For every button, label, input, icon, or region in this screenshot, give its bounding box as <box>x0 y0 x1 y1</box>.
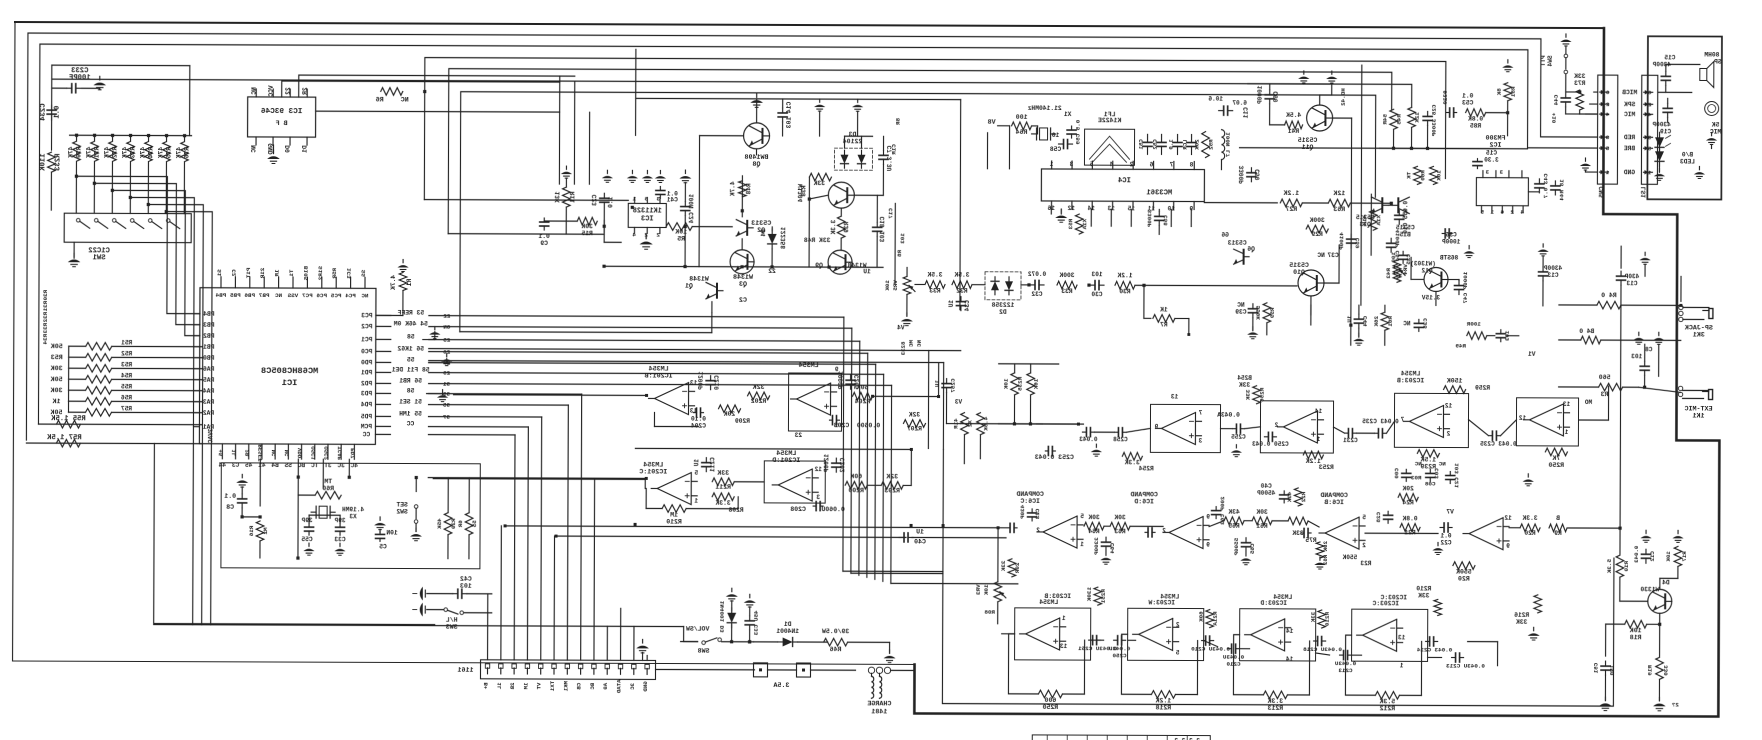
svg-text:C17: C17 <box>887 208 894 219</box>
svg-text:1161: 1161 <box>457 667 473 675</box>
svg-text:C8: C8 <box>1645 346 1653 353</box>
svg-text:PC4: PC4 <box>345 292 356 299</box>
svg-text:2: 2 <box>1605 101 1609 108</box>
svg-text:6: 6 <box>1500 209 1504 216</box>
svg-text:9: 9 <box>1506 543 1510 550</box>
svg-text:1N0: 1N0 <box>1609 665 1616 676</box>
svg-text:R9: R9 <box>1554 530 1562 537</box>
svg-text:PA5: PA5 <box>203 377 215 384</box>
svg-text:R72: R72 <box>111 147 118 159</box>
svg-text:C250: C250 <box>1112 652 1127 659</box>
svg-text:R63: R63 <box>1333 206 1345 213</box>
svg-text:C2: C2 <box>739 297 747 305</box>
svg-text:550K: 550K <box>1255 306 1262 321</box>
svg-text:1000P C47: 1000P C47 <box>1462 272 1469 304</box>
svg-text:21.140MHz: 21.140MHz <box>1027 105 1061 112</box>
svg-text:C03: C03 <box>1433 468 1440 479</box>
svg-text:12: 12 <box>1445 402 1453 409</box>
svg-text:R203: R203 <box>884 487 900 494</box>
svg-text:3.30: 3.30 <box>1484 157 1499 164</box>
svg-text:MK1: MK1 <box>562 681 569 692</box>
svg-text:3C: 3C <box>629 683 636 690</box>
svg-text:T1: T1 <box>288 270 295 278</box>
svg-text:SS: SS <box>360 270 367 278</box>
svg-text:33K: 33K <box>1310 612 1317 623</box>
svg-text:R216: R216 <box>1514 612 1529 619</box>
svg-text:PC5: PC5 <box>330 292 341 299</box>
svg-text:2: 2 <box>1446 430 1450 437</box>
svg-text:C50: C50 <box>1254 169 1261 180</box>
svg-text:C211: C211 <box>709 457 716 472</box>
svg-text:IC6:B: IC6:B <box>1324 499 1344 506</box>
svg-text:21R: 21R <box>259 268 266 279</box>
svg-text:20R: 20R <box>1014 563 1021 574</box>
svg-text:R73: R73 <box>1574 80 1586 87</box>
svg-text:9: 9 <box>1206 542 1210 549</box>
svg-text:1481: 1481 <box>871 708 887 716</box>
svg-text:9: 9 <box>1154 423 1158 430</box>
svg-text:1000P: 1000P <box>1442 238 1461 245</box>
svg-text:5: 5 <box>644 195 648 202</box>
svg-text:5.3K: 5.3K <box>1606 559 1613 574</box>
svg-text:103: 103 <box>899 233 906 244</box>
svg-text:16K: 16K <box>1033 379 1040 390</box>
svg-text:5: 5 <box>1089 161 1093 168</box>
svg-text:6.07: 6.07 <box>1232 100 1247 107</box>
svg-text:13: 13 <box>690 408 698 415</box>
svg-text:2: 2 <box>1274 422 1278 429</box>
svg-text:100: 100 <box>1016 114 1028 121</box>
svg-text:R3: R3 <box>1601 391 1609 398</box>
svg-text:C14 103: C14 103 <box>786 102 793 129</box>
svg-text:G6: G6 <box>1221 232 1229 239</box>
svg-text:12K: 12K <box>1333 190 1345 197</box>
svg-text:13: 13 <box>1398 634 1406 641</box>
svg-text:C258: C258 <box>1113 436 1128 443</box>
svg-text:10K: 10K <box>1003 378 1010 389</box>
svg-text:6: 6 <box>1606 89 1610 96</box>
svg-text:1.0: 1.0 <box>1168 139 1175 150</box>
svg-text:7: 7 <box>1400 416 1404 423</box>
svg-text:R254: R254 <box>1139 465 1154 472</box>
svg-text:7K: 7K <box>1552 455 1560 462</box>
svg-text:103: 103 <box>1631 353 1642 360</box>
svg-text:45K: 45K <box>436 518 443 529</box>
svg-text:33K: 33K <box>1418 592 1430 599</box>
svg-text:550K: 550K <box>1456 569 1472 576</box>
svg-text:0.10: 0.10 <box>691 416 706 423</box>
svg-text:3: 3 <box>656 195 660 202</box>
svg-text:4.5K: 4.5K <box>1286 112 1301 119</box>
svg-text:R59: R59 <box>1269 308 1276 319</box>
svg-text:V4: V4 <box>897 324 905 331</box>
svg-text:BRE: BRE <box>1624 145 1636 152</box>
svg-text:47K: 47K <box>139 147 146 159</box>
svg-text:1: 1 <box>1080 541 1084 548</box>
svg-text:30K: 30K <box>1114 514 1126 521</box>
svg-text:C28: C28 <box>1375 512 1382 523</box>
svg-text:R10: R10 <box>1623 561 1630 572</box>
svg-text:R256: R256 <box>1259 388 1266 403</box>
svg-text:10K: 10K <box>1630 627 1642 634</box>
svg-text:PC0: PC0 <box>361 348 373 355</box>
svg-text:2B: 2B <box>509 682 516 689</box>
svg-text:PB1: PB1 <box>203 344 215 351</box>
svg-text:25: 25 <box>443 337 451 344</box>
svg-text:3.5K: 3.5K <box>927 272 942 279</box>
svg-text:R33: R33 <box>929 288 941 295</box>
svg-text:33K: 33K <box>813 180 825 187</box>
svg-text:22: 22 <box>285 87 292 95</box>
svg-text:0.5 C59: 0.5 C59 <box>1075 120 1082 145</box>
svg-text:1L: 1L <box>231 449 238 456</box>
svg-text:(W1303): (W1303) <box>1410 260 1436 267</box>
svg-text:C36: C36 <box>1445 231 1456 238</box>
svg-text:14: 14 <box>1286 628 1294 635</box>
svg-text:33K: 33K <box>1516 619 1528 626</box>
svg-text:NC: NC <box>401 96 409 104</box>
svg-text:R53: R53 <box>121 361 132 368</box>
svg-text:R60: R60 <box>1419 170 1426 181</box>
svg-text:C39: C39 <box>1235 309 1247 316</box>
svg-text:C208: C208 <box>790 506 806 513</box>
svg-text:33K: 33K <box>1000 560 1007 571</box>
svg-text:2B: 2B <box>244 449 251 456</box>
svg-text:R43: R43 <box>1385 268 1392 279</box>
svg-text:5: 5 <box>1647 145 1651 152</box>
svg-text:6R: 6R <box>457 520 464 528</box>
svg-text:5K: 5K <box>1712 122 1720 129</box>
svg-text:R15: R15 <box>581 230 593 237</box>
svg-text:C2: C2 <box>230 269 237 277</box>
svg-text:430P: 430P <box>1019 505 1026 520</box>
svg-text:C37: C37 <box>1327 252 1339 259</box>
svg-text:CC: CC <box>406 421 414 428</box>
svg-text:33K: 33K <box>1574 73 1586 80</box>
svg-text:9320: 9320 <box>1442 90 1449 105</box>
svg-text:100: 100 <box>1390 252 1397 263</box>
svg-text:VCC: VCC <box>268 85 275 96</box>
svg-text:TK: TK <box>1405 172 1412 180</box>
svg-text:C30: C30 <box>1091 291 1102 298</box>
svg-text:R210: R210 <box>666 519 682 526</box>
svg-text:58 F11 DE1: 58 F11 DE1 <box>392 366 430 373</box>
svg-text:SW4: SW4 <box>1547 55 1554 66</box>
svg-text:12: 12 <box>1067 205 1075 212</box>
svg-text:R63: R63 <box>1114 528 1126 535</box>
svg-text:IC6:D: IC6:D <box>1134 498 1154 505</box>
svg-text:30K: 30K <box>50 365 63 373</box>
svg-text:33K: 33K <box>717 470 729 477</box>
svg-text:B15: B15 <box>1399 231 1411 238</box>
svg-text:B10S: B10S <box>302 266 309 281</box>
svg-text:0.1: 0.1 <box>1462 93 1474 100</box>
svg-text:1R: 1R <box>274 269 281 277</box>
svg-text:NC: NC <box>916 340 923 348</box>
svg-text:56 1K62: 56 1K62 <box>397 345 424 352</box>
svg-text:R20: R20 <box>1524 530 1536 537</box>
svg-text:39/0.5W: 39/0.5W <box>822 628 849 635</box>
svg-text:Q8: Q8 <box>752 161 760 169</box>
svg-text:C210: C210 <box>1226 661 1241 668</box>
svg-text:VOL/SW: VOL/SW <box>686 626 710 633</box>
svg-text:R31: R31 <box>42 301 49 312</box>
svg-text:C213: C213 <box>1338 667 1353 674</box>
svg-text:2: 2 <box>1129 161 1133 168</box>
svg-text:4500P: 4500P <box>1257 490 1276 497</box>
svg-text:R61: R61 <box>1256 523 1268 530</box>
svg-text:R207: R207 <box>907 425 922 432</box>
svg-text:C233: C233 <box>71 67 88 75</box>
svg-text:100N C24: 100N C24 <box>688 194 695 224</box>
svg-text:MO: MO <box>1585 399 1593 406</box>
svg-text:13: 13 <box>690 380 698 387</box>
svg-text:C65: C65 <box>1249 543 1256 554</box>
svg-text:D1: D1 <box>784 621 792 628</box>
svg-text:IC1: IC1 <box>282 378 298 388</box>
svg-text:PC3: PC3 <box>361 312 373 319</box>
svg-text:K1422E: K1422E <box>1098 117 1122 124</box>
svg-text:R32: R32 <box>956 288 968 295</box>
svg-text:R57: R57 <box>121 405 132 412</box>
svg-text:R61: R61 <box>1387 316 1394 327</box>
svg-text:LM354: LM354 <box>1401 370 1421 377</box>
svg-text:W1348: W1348 <box>689 276 709 283</box>
svg-text:IC3 93C46: IC3 93C46 <box>261 108 303 116</box>
svg-text:R212: R212 <box>1379 705 1395 712</box>
svg-text:C257: C257 <box>950 379 957 394</box>
svg-text:C234: C234 <box>40 103 48 121</box>
svg-text:60K: 60K <box>850 473 862 480</box>
svg-text:C55: C55 <box>301 536 313 543</box>
svg-text:300K: 300K <box>1309 217 1324 224</box>
svg-text:+10: +10 <box>1551 113 1558 124</box>
svg-text:4: 4 <box>1109 161 1113 168</box>
svg-text:R251: R251 <box>1100 589 1107 604</box>
svg-text:3VAC: 3VAC <box>207 428 214 443</box>
svg-text:W1330: W1330 <box>1640 586 1659 593</box>
svg-text:C51: C51 <box>1593 663 1600 674</box>
svg-text:R22: R22 <box>1300 492 1307 503</box>
svg-text:P1T: P1T <box>245 268 252 279</box>
svg-text:C34: C34 <box>964 300 971 311</box>
svg-text:45U C33: 45U C33 <box>753 610 760 635</box>
svg-text:1.2K: 1.2K <box>1155 697 1171 704</box>
svg-text:R259: R259 <box>1475 385 1490 392</box>
svg-text:32K: 32K <box>886 473 898 480</box>
svg-text:110K: 110K <box>39 153 47 171</box>
svg-text:0.043U: 0.043U <box>1109 645 1131 652</box>
svg-text:23: 23 <box>794 432 802 439</box>
svg-text:H/L: H/L <box>446 617 458 624</box>
svg-text:LM354: LM354 <box>1160 593 1179 600</box>
svg-text:22104: 22104 <box>843 138 863 145</box>
svg-text:13K: 13K <box>554 191 561 203</box>
svg-text:+5: +5 <box>217 449 224 456</box>
svg-text:PB4: PB4 <box>203 311 215 318</box>
svg-text:29: 29 <box>443 370 451 377</box>
svg-text:C58: C58 <box>1050 146 1062 153</box>
svg-text:R233: R233 <box>54 154 62 171</box>
svg-text:C59: C59 <box>1354 238 1361 249</box>
svg-text:R16: R16 <box>248 526 255 537</box>
svg-text:GN: GN <box>443 324 451 331</box>
svg-text:SW1: SW1 <box>92 254 106 262</box>
svg-text:2: 2 <box>1647 101 1651 108</box>
svg-text:PB0: PB0 <box>203 355 215 362</box>
svg-text:10K: 10K <box>675 229 687 236</box>
svg-text:C38: C38 <box>1422 318 1429 329</box>
svg-text:10.6: 10.6 <box>1208 96 1223 103</box>
svg-text:CC: CC <box>362 431 370 438</box>
svg-text:22: 22 <box>768 268 776 275</box>
svg-text:R85: R85 <box>1470 123 1482 130</box>
svg-text:60K: 60K <box>1198 611 1205 622</box>
svg-text:NC: NC <box>283 450 290 457</box>
svg-text:5: 5 <box>694 470 698 477</box>
svg-text:30K: 30K <box>1256 509 1268 516</box>
svg-text:PD7: PD7 <box>349 448 356 459</box>
svg-text:1: 1 <box>694 498 698 505</box>
svg-text:CHARGE: CHARGE <box>867 700 891 708</box>
svg-text:3: 3 <box>1485 169 1489 176</box>
svg-text:R74: R74 <box>147 147 154 159</box>
svg-text:2: 2 <box>1362 542 1366 549</box>
svg-text:R51: R51 <box>121 339 132 346</box>
svg-text:R55: R55 <box>121 383 132 390</box>
svg-text:54R: 54R <box>1382 114 1389 125</box>
svg-text:R213: R213 <box>1267 705 1283 712</box>
svg-text:43K: 43K <box>1286 492 1293 503</box>
svg-text:600: 600 <box>1044 697 1056 704</box>
svg-text:13: 13 <box>1171 393 1179 400</box>
svg-text:100R: 100R <box>1466 321 1481 328</box>
svg-text:C42: C42 <box>460 576 472 583</box>
svg-text:1200P: 1200P <box>698 371 705 390</box>
svg-text:1U: 1U <box>1346 316 1353 324</box>
svg-text:B F: B F <box>276 120 288 128</box>
svg-text:430P: 430P <box>1624 273 1639 280</box>
svg-text:5: 5 <box>1605 145 1609 152</box>
svg-text:5: 5 <box>1175 649 1179 656</box>
svg-text:3: 3 <box>1647 134 1651 141</box>
svg-text:1N4001: 1N4001 <box>776 628 799 635</box>
svg-text:10K: 10K <box>1665 551 1672 562</box>
svg-text:C5315: C5315 <box>1289 262 1309 269</box>
svg-text:R34: R34 <box>42 334 49 345</box>
svg-text:Q1: Q1 <box>685 283 693 290</box>
svg-text:S1R2: S1R2 <box>317 266 324 281</box>
svg-text:0.1: 0.1 <box>224 493 236 500</box>
svg-text:X1A: X1A <box>1375 215 1382 226</box>
svg-text:C5: C5 <box>379 543 387 550</box>
svg-text:C253 0.043: C253 0.043 <box>1035 454 1074 461</box>
svg-text:LM354: LM354 <box>1273 594 1292 601</box>
svg-text:3.3K: 3.3K <box>1522 515 1537 522</box>
svg-text:4.7K: 4.7K <box>390 275 397 290</box>
svg-text:R211: R211 <box>715 484 731 491</box>
svg-text:3: 3 <box>1499 169 1503 176</box>
svg-text:20K: 20K <box>724 411 736 418</box>
svg-text:1: 1 <box>1490 209 1494 216</box>
svg-text:32K: 32K <box>909 411 921 418</box>
svg-text:56 RB1: 56 RB1 <box>399 377 422 384</box>
svg-text:R208: R208 <box>728 507 743 514</box>
svg-text:CB: CB <box>576 683 583 690</box>
svg-text:R33: R33 <box>1061 288 1073 295</box>
svg-text:X1A: X1A <box>1081 219 1088 230</box>
svg-text:6: 6 <box>1149 161 1153 168</box>
svg-text:B254: B254 <box>1237 375 1252 382</box>
svg-text:W1304: W1304 <box>797 184 804 203</box>
svg-text:OSC2: OSC2 <box>323 446 330 460</box>
svg-text:C44: C44 <box>1553 95 1560 106</box>
svg-text:58: 58 <box>407 334 415 341</box>
svg-text:0.1: 0.1 <box>1440 532 1451 539</box>
svg-text:X1: X1 <box>1064 111 1072 118</box>
svg-text:4.7K: 4.7K <box>729 181 736 196</box>
svg-text:58: 58 <box>407 388 415 395</box>
svg-text:80HM: 80HM <box>1704 51 1719 58</box>
svg-text:30K: 30K <box>1088 514 1100 521</box>
svg-text:R29: R29 <box>1311 231 1323 238</box>
svg-text:R75: R75 <box>1305 537 1317 544</box>
svg-text:10N: 10N <box>386 529 398 536</box>
svg-text:4: 4 <box>1520 209 1524 216</box>
svg-text:NC: NC <box>1414 460 1422 467</box>
svg-text:R11: R11 <box>569 191 576 203</box>
svg-text:R45: R45 <box>1396 114 1403 125</box>
svg-text:1000P: 1000P <box>1257 86 1264 105</box>
svg-text:3.5K: 3.5K <box>954 272 969 279</box>
svg-text:SPK: SPK <box>1624 101 1636 108</box>
svg-text:R64: R64 <box>1016 129 1028 136</box>
svg-text:47K: 47K <box>157 147 164 159</box>
svg-text:20K: 20K <box>1402 485 1414 492</box>
svg-text:122358: 122358 <box>780 227 787 249</box>
svg-text:550K: 550K <box>1342 554 1357 561</box>
svg-text:2: 2 <box>1510 209 1514 216</box>
svg-text:3.3K: 3.3K <box>1125 459 1140 466</box>
svg-text:3: 3 <box>1198 438 1202 445</box>
svg-text:RED: RED <box>1624 134 1636 141</box>
svg-text:PTT: PTT <box>1540 55 1547 66</box>
svg-text:4: 4 <box>1605 111 1609 118</box>
svg-text:33: 33 <box>443 391 451 398</box>
svg-text:3300P: 3300P <box>1093 537 1100 555</box>
svg-text:R46: R46 <box>830 646 842 653</box>
svg-text:C44: C44 <box>1362 316 1369 327</box>
svg-text:2: 2 <box>1162 527 1166 534</box>
svg-text:C53: C53 <box>1462 100 1474 107</box>
svg-text:R209: R209 <box>735 418 750 425</box>
svg-text:1: 1 <box>834 422 838 429</box>
svg-text:R6: R6 <box>376 96 384 104</box>
svg-text:2R: 2R <box>302 87 309 95</box>
svg-text:C13: C13 <box>1547 272 1558 279</box>
svg-text:VSS: VSS <box>287 292 298 299</box>
svg-text:C52: C52 <box>1152 139 1159 150</box>
svg-text:C40: C40 <box>914 538 926 545</box>
svg-text:2: 2 <box>1176 621 1180 628</box>
svg-text:8: 8 <box>1189 162 1193 169</box>
svg-text:8R: 8R <box>895 118 902 126</box>
svg-text:R19: R19 <box>1647 665 1654 676</box>
svg-text:C1R: C1R <box>890 144 897 155</box>
svg-text:NC: NC <box>275 292 283 299</box>
svg-text:R57 1.5K: R57 1.5K <box>46 434 81 442</box>
svg-text:IC203:C: IC203:C <box>1380 594 1407 601</box>
